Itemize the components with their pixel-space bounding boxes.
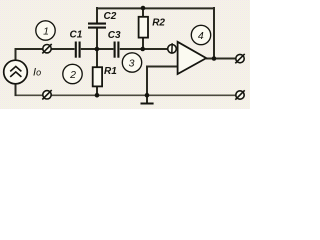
terminal node bottom-left [42, 90, 51, 99]
svg-text:C2: C2 [104, 11, 117, 22]
wire: left branch lower [15, 84, 17, 97]
terminal node top-left [42, 44, 51, 53]
op-amp inverting input bubble [168, 45, 177, 54]
svg-text:4: 4 [198, 30, 204, 42]
wire: main row left segment [15, 48, 44, 50]
wire: node1 to C1 [51, 48, 75, 50]
node label 4 [191, 25, 210, 44]
junction dot at R2 node [140, 47, 145, 52]
svg-text:3: 3 [129, 57, 135, 69]
wire: C2 branch upper [96, 7, 98, 23]
svg-text:C3: C3 [108, 30, 121, 41]
wire: top feedback horizontal [96, 7, 215, 9]
node label 1 [36, 21, 55, 40]
wire: C3 to op-amp bubble [120, 48, 168, 50]
wire: non-inverting input horizontal [146, 66, 178, 68]
svg-text:Io: Io [33, 67, 41, 79]
junction dot at ground node [145, 93, 150, 98]
wire: bottom rail left [15, 94, 44, 96]
svg-text:1: 1 [43, 25, 49, 37]
wire: R2 branch upper stub [142, 7, 144, 17]
terminal node output [235, 54, 244, 63]
wire: bottom rail main [51, 94, 236, 96]
wire: C2 branch lower [96, 28, 98, 50]
wire: non-inverting input vertical to ground wire [146, 67, 148, 96]
capacitor C1 [76, 42, 80, 58]
node label 3 [122, 53, 141, 72]
wire: R1 branch upper stub [96, 48, 98, 68]
svg-text:R1: R1 [104, 66, 117, 77]
wire: feedback vertical right [213, 7, 215, 59]
junction dot at C2/R1 node [95, 47, 100, 52]
resistor R1 [93, 67, 102, 86]
wire: left branch upper [15, 48, 17, 61]
ground [141, 103, 154, 105]
junction dot at top of R2 [141, 6, 146, 11]
junction dot at R1 bottom [95, 93, 100, 98]
terminal node bottom-right [235, 90, 244, 99]
wire: R1 branch lower stub [96, 86, 98, 96]
capacitor C2 [88, 24, 106, 28]
svg-text:R2: R2 [152, 17, 165, 28]
junction dot at op-amp output [212, 56, 217, 61]
wire: R2 branch lower stub [142, 38, 144, 51]
svg-text:C1: C1 [70, 30, 83, 41]
op-amp U1 [178, 42, 207, 74]
svg-text:2: 2 [69, 69, 76, 81]
wire: ground stub [146, 95, 148, 103]
wire: C1 to C3 through junction [81, 48, 114, 50]
wire: op-amp output [206, 58, 236, 60]
capacitor C3 [115, 42, 119, 58]
resistor R2 [139, 17, 148, 38]
current source Io [4, 60, 28, 84]
node label 2 [63, 64, 82, 83]
